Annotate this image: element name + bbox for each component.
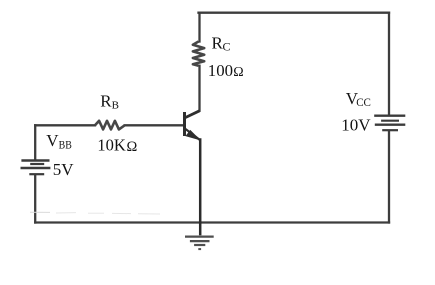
svg-text:R: R — [100, 92, 112, 111]
svg-text:100: 100 — [208, 61, 233, 80]
svg-text:C: C — [223, 40, 231, 54]
svg-text:BB: BB — [59, 139, 72, 152]
svg-text:5V: 5V — [53, 160, 75, 179]
svg-text:Ω: Ω — [127, 139, 138, 155]
svg-text:10V: 10V — [341, 115, 371, 134]
svg-text:V: V — [46, 131, 59, 150]
svg-text:B: B — [112, 100, 119, 112]
svg-text:CC: CC — [356, 97, 371, 109]
svg-text:10K: 10K — [97, 135, 126, 154]
svg-text:Ω: Ω — [233, 65, 243, 80]
